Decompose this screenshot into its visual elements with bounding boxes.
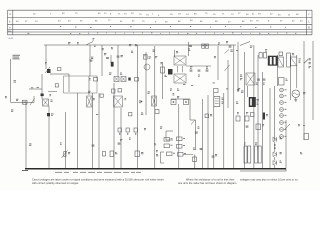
svg-text:MHz: MHz	[8, 31, 12, 33]
svg-text:+0.05: +0.05	[8, 38, 14, 40]
svg-text:voltages may vary plus or minu: voltages may vary plus or minus 10 per c…	[240, 178, 299, 181]
svg-text:with correct polarity observed: with correct polarity observed on ranges…	[32, 182, 79, 185]
svg-text:Where the resistance of a coil: Where the resistance of a coil is less t…	[186, 178, 235, 181]
svg-text:one ohm the value has not been: one ohm the value has not been shown in …	[178, 182, 237, 185]
svg-text:Circuit voltages are taken und: Circuit voltages are taken under no-sign…	[32, 178, 164, 181]
